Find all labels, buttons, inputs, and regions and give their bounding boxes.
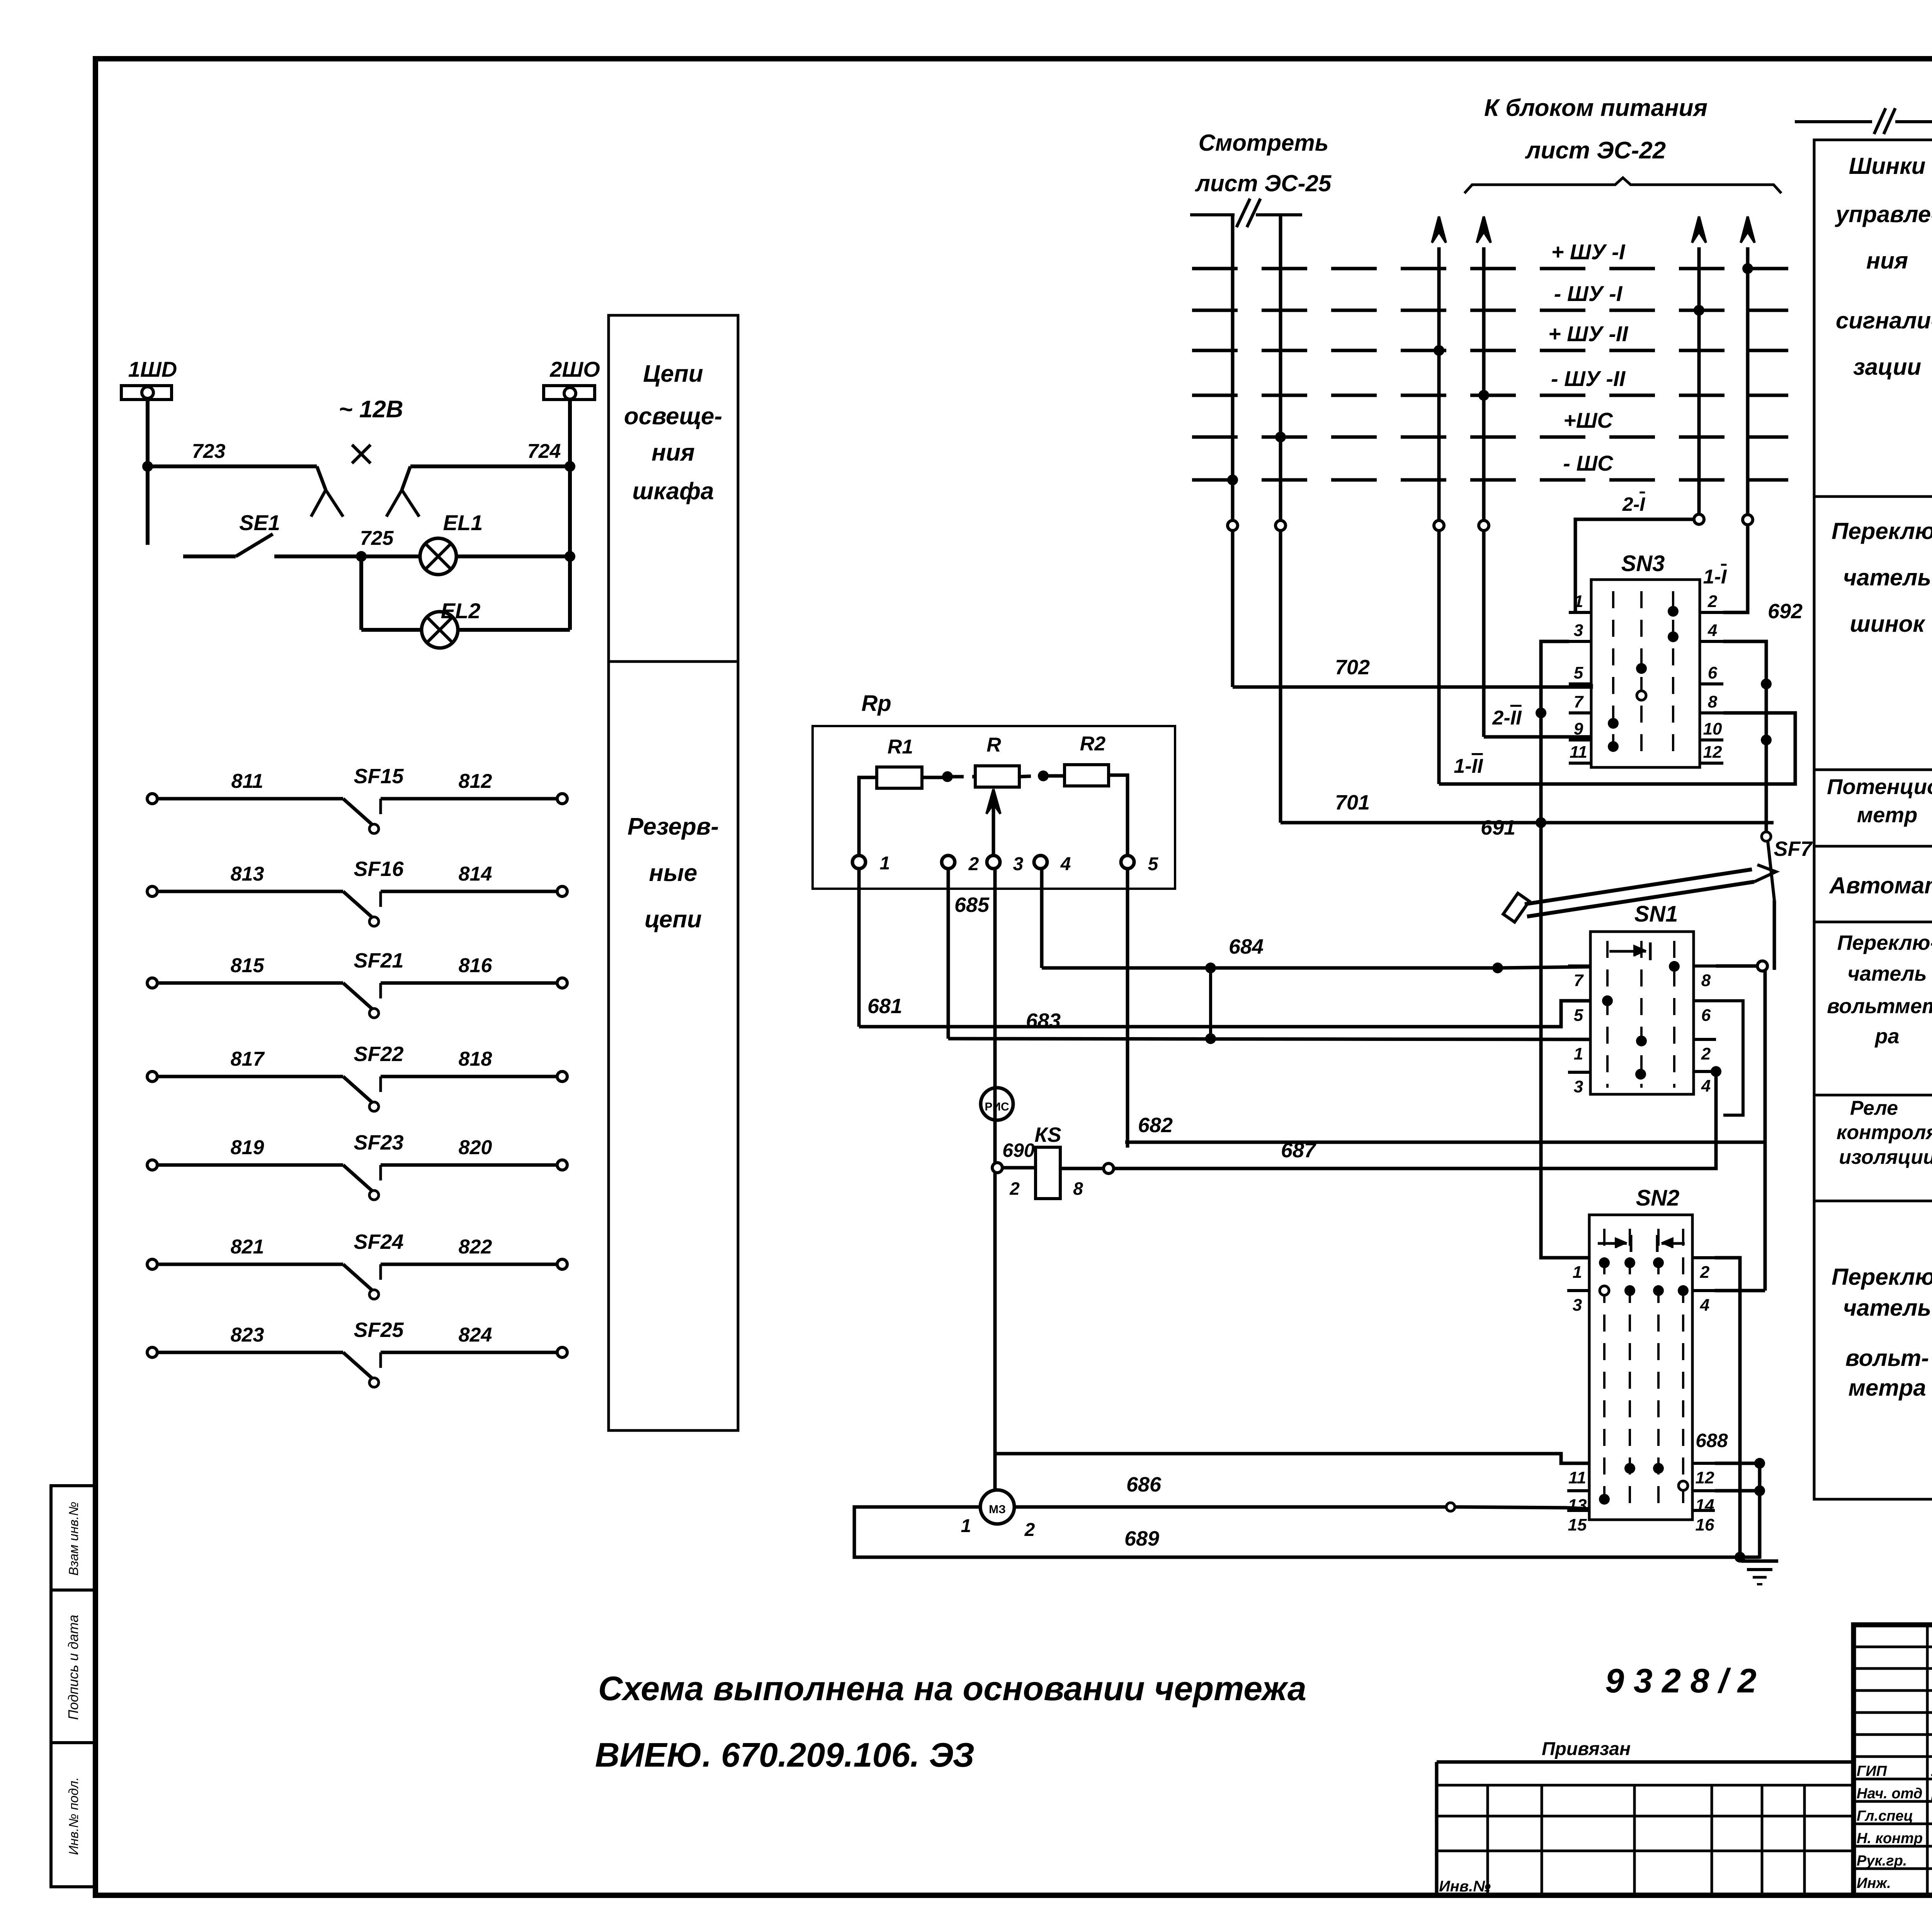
svg-text:2: 2 xyxy=(1701,1044,1711,1063)
svg-text:4: 4 xyxy=(1700,1296,1709,1315)
drawout switch double bar xyxy=(1527,882,1754,917)
svg-text:687: 687 xyxy=(1281,1139,1317,1162)
reserve circuit SF21 wire 815-816 xyxy=(147,978,157,988)
SN1 selector arrow xyxy=(1609,950,1646,953)
wire from terminal 3 wiper down xyxy=(993,869,997,1490)
middle column divider xyxy=(1814,1200,1932,1202)
svg-text:SF24: SF24 xyxy=(354,1230,403,1253)
svg-text:1: 1 xyxy=(1574,1044,1583,1063)
left margin box Podpis i data xyxy=(51,1590,95,1743)
svg-text:управле-: управле- xyxy=(1835,201,1932,227)
svg-text:ния: ния xyxy=(651,439,695,466)
svg-text:701: 701 xyxy=(1335,791,1370,814)
vertical from ES-25 to node 701 xyxy=(1279,215,1282,520)
reserve circuit SF23 wire 819-820 xyxy=(147,1160,157,1170)
svg-text:5: 5 xyxy=(1574,1006,1583,1025)
SN1 pin6 drop wire xyxy=(1716,1001,1743,1115)
cross mark X xyxy=(352,445,371,463)
svg-text:R1: R1 xyxy=(888,736,913,758)
svg-text:3: 3 xyxy=(1574,1077,1583,1096)
svg-text:EL2: EL2 xyxy=(441,599,481,623)
svg-text:метр: метр xyxy=(1857,803,1918,827)
left margin box Inv No podl xyxy=(51,1743,95,1887)
svg-text:814: 814 xyxy=(459,863,492,885)
SN1 contact dots xyxy=(1669,961,1680,972)
svg-text:Автомат: Автомат xyxy=(1828,872,1932,898)
middle label column box xyxy=(1814,140,1932,1499)
svg-text:SF16: SF16 xyxy=(354,857,404,881)
svg-text:684: 684 xyxy=(1229,935,1264,958)
svg-text:вольт-: вольт- xyxy=(1845,1345,1929,1371)
svg-text:цепи: цепи xyxy=(645,906,702,933)
SN1 pin 8 xyxy=(1694,964,1716,968)
svg-text:1-II: 1-II xyxy=(1454,755,1483,777)
switch SN1 box xyxy=(1590,932,1694,1094)
svg-text:Н. контр: Н. контр xyxy=(1857,1830,1923,1847)
svg-text:- ШУ -II: - ШУ -II xyxy=(1551,366,1626,391)
svg-text:Переклю-: Переклю- xyxy=(1837,931,1932,954)
SN2 pin 13 xyxy=(1567,1489,1589,1492)
svg-text:7: 7 xyxy=(1574,692,1584,711)
reserve circuit SF24 wire 821-822 xyxy=(147,1259,157,1269)
svg-text:лист ЭС-25: лист ЭС-25 xyxy=(1195,170,1332,196)
instrument PIS circle xyxy=(981,1088,1013,1120)
svg-text:1: 1 xyxy=(961,1516,971,1536)
svg-text:820: 820 xyxy=(459,1136,492,1159)
reserve circuit SF16 wire 813-814 xyxy=(147,886,157,896)
SN3 dashed contact columns xyxy=(1612,591,1614,757)
svg-text:4: 4 xyxy=(1701,1077,1711,1095)
drawout switch hook xyxy=(1503,893,1529,922)
svg-text:2: 2 xyxy=(1708,592,1718,611)
SN3 pin 3 xyxy=(1569,640,1591,643)
svg-text:Нач. отд: Нач. отд xyxy=(1857,1786,1922,1802)
svg-text:5: 5 xyxy=(1574,663,1583,682)
SN2 contact dots xyxy=(1599,1257,1610,1268)
arrow vertical bus tap 4 xyxy=(1746,247,1750,515)
svg-text:691: 691 xyxy=(1481,816,1515,839)
line with break over ES-25 verticals xyxy=(1190,213,1235,216)
svg-text:690: 690 xyxy=(1002,1139,1035,1161)
vertical from ES-25 to node 702 xyxy=(1231,215,1235,520)
Rp terminal 1 xyxy=(852,855,866,869)
SN1 dashed contact columns xyxy=(1606,941,1609,1088)
Rp terminal 4 xyxy=(1034,855,1047,869)
SN3 pin 10 xyxy=(1700,738,1723,742)
svg-text:10: 10 xyxy=(1703,719,1722,738)
lamp EL2 xyxy=(422,612,458,648)
svg-text:702: 702 xyxy=(1335,656,1370,679)
svg-text:сигнали-: сигнали- xyxy=(1836,308,1932,333)
svg-text:4: 4 xyxy=(1708,621,1717,640)
SN1 pin8 wire to SF7 vertical xyxy=(1716,964,1757,968)
svg-text:3: 3 xyxy=(1574,621,1583,640)
SN3 pin 12 xyxy=(1700,762,1723,765)
resistor R xyxy=(975,766,1019,787)
svg-text:Гл.спец: Гл.спец xyxy=(1857,1808,1913,1824)
title block left grid rows xyxy=(1854,1646,1932,1648)
bus line +ШС xyxy=(1192,435,1788,439)
Rp terminal 3 xyxy=(987,855,1000,869)
SN2 dashed contact columns xyxy=(1603,1229,1605,1511)
svg-text:6: 6 xyxy=(1708,663,1718,682)
ground stem xyxy=(1758,1463,1762,1559)
svg-text:EL1: EL1 xyxy=(443,510,483,535)
SN1 pin 3 xyxy=(1568,1071,1590,1074)
middle column divider xyxy=(1814,769,1932,771)
svg-text:контроля: контроля xyxy=(1837,1121,1932,1144)
svg-text:чатель: чатель xyxy=(1847,962,1927,985)
svg-text:Шинки: Шинки xyxy=(1849,153,1926,179)
SN3 pin 6 xyxy=(1700,682,1723,685)
svg-text:818: 818 xyxy=(459,1048,492,1070)
svg-text:2: 2 xyxy=(1024,1520,1035,1540)
svg-text:Rp: Rp xyxy=(861,691,891,716)
resistor assembly Rp box xyxy=(813,726,1175,889)
svg-text:685: 685 xyxy=(954,893,990,917)
svg-text:КS: КS xyxy=(1034,1123,1061,1146)
riser between 684 and 683 xyxy=(1209,968,1212,1039)
svg-text:8: 8 xyxy=(1701,971,1711,990)
svg-text:Инж.: Инж. xyxy=(1857,1875,1891,1891)
svg-text:2: 2 xyxy=(968,854,979,874)
wire from terminal 1 down xyxy=(857,869,861,1027)
svg-text:681: 681 xyxy=(867,995,902,1018)
SN3 pin 9 xyxy=(1569,738,1591,742)
SN3 pin 4 xyxy=(1700,640,1723,643)
SN3 pin 2 xyxy=(1700,611,1723,614)
reserve circuit SF22 wire 817-818 xyxy=(147,1071,157,1082)
SN2 pin 14 xyxy=(1692,1489,1715,1492)
svg-text:812: 812 xyxy=(459,770,492,793)
left label column divider xyxy=(609,660,738,663)
line with break over middle column xyxy=(1795,120,1872,123)
svg-text:688: 688 xyxy=(1696,1430,1728,1451)
svg-text:682: 682 xyxy=(1138,1114,1173,1137)
svg-text:SN1: SN1 xyxy=(1634,901,1678,927)
svg-text:1: 1 xyxy=(1573,1263,1582,1282)
middle column divider xyxy=(1814,495,1932,498)
svg-text:SN2: SN2 xyxy=(1636,1185,1680,1211)
svg-text:Переклю-: Переклю- xyxy=(1832,1264,1932,1290)
svg-text:823: 823 xyxy=(231,1324,264,1346)
svg-text:чатель: чатель xyxy=(1843,565,1931,590)
middle column divider xyxy=(1814,845,1932,848)
svg-text:811: 811 xyxy=(231,770,264,793)
SN1 pin 5 xyxy=(1568,999,1590,1002)
svg-text:3: 3 xyxy=(1573,1296,1582,1315)
svg-text:723: 723 xyxy=(192,440,226,463)
SN3 pin 11 xyxy=(1569,762,1591,765)
svg-text:813: 813 xyxy=(231,863,264,885)
svg-text:824: 824 xyxy=(459,1324,492,1346)
Rp internal wiring xyxy=(859,777,877,857)
left margin box Vzam inv xyxy=(51,1486,95,1590)
SN2 pin14 wire to ground stem xyxy=(1715,1489,1760,1493)
terminal 2ShO xyxy=(544,386,595,400)
svg-text:Рук.гр.: Рук.гр. xyxy=(1857,1853,1907,1869)
SN3 pin 8 xyxy=(1700,711,1723,714)
svg-text:SF23: SF23 xyxy=(354,1131,403,1154)
arrow vertical bus tap 2 xyxy=(1482,247,1486,520)
svg-text:Потенцио-: Потенцио- xyxy=(1827,774,1932,799)
Rp terminal 5 xyxy=(1121,855,1134,869)
svg-text:ВИЕЮ. 670.209.106. ЭЗ: ВИЕЮ. 670.209.106. ЭЗ xyxy=(595,1736,975,1774)
svg-text:+ ШУ -I: + ШУ -I xyxy=(1551,240,1626,264)
svg-text:12: 12 xyxy=(1703,743,1722,762)
svg-text:Схема выполнена на основан: Схема выполнена на основании чертежа xyxy=(598,1669,1306,1708)
svg-text:изоляции: изоляции xyxy=(1839,1146,1932,1168)
svg-text:чатель: чатель xyxy=(1843,1295,1931,1321)
svg-text:16: 16 xyxy=(1696,1515,1714,1534)
connector fork right xyxy=(402,466,410,490)
vertical from SF7 to SN2 pin4 xyxy=(1764,971,1767,1291)
svg-text:SF7: SF7 xyxy=(1774,837,1813,861)
svg-text:2-I: 2-I xyxy=(1622,493,1645,515)
svg-text:SF15: SF15 xyxy=(354,765,404,788)
svg-text:шкафа: шкафа xyxy=(632,478,714,505)
middle column divider xyxy=(1814,1094,1932,1097)
attachment table xyxy=(1437,1760,1854,1764)
svg-text:К блоком питания: К блоком питания xyxy=(1484,95,1708,121)
SN2 pin 3 xyxy=(1567,1289,1589,1292)
svg-text:Привязан: Привязан xyxy=(1542,1739,1631,1759)
svg-text:Смотреть: Смотреть xyxy=(1199,130,1329,156)
svg-text:11: 11 xyxy=(1570,743,1587,762)
svg-text:+ ШУ -II: + ШУ -II xyxy=(1548,321,1629,346)
svg-text:7: 7 xyxy=(1574,971,1584,990)
svg-text:МЗ: МЗ xyxy=(989,1503,1006,1516)
SN1 pin 4 xyxy=(1694,1070,1716,1073)
svg-text:- ШС: - ШС xyxy=(1563,451,1614,475)
SN2 pin 15 xyxy=(1567,1509,1589,1512)
svg-text:821: 821 xyxy=(231,1236,264,1258)
svg-text:- ШУ -I: - ШУ -I xyxy=(1554,281,1623,306)
svg-text:683: 683 xyxy=(1026,1009,1061,1032)
svg-text:815: 815 xyxy=(231,954,265,977)
svg-text:725: 725 xyxy=(360,527,394,549)
switch SN2 box xyxy=(1589,1215,1692,1520)
SN1 pin 7 xyxy=(1568,964,1590,968)
svg-text:816: 816 xyxy=(459,954,493,977)
reserve circuit SF25 wire 823-824 xyxy=(147,1347,157,1357)
SN1 pin 2 xyxy=(1694,1038,1716,1041)
SN3 pin 1 xyxy=(1569,611,1591,614)
bus line - ШУ -I xyxy=(1192,309,1788,312)
svg-text:2-II: 2-II xyxy=(1492,707,1522,729)
svg-text:SF21: SF21 xyxy=(354,949,403,972)
wire 2ShO down to lamps xyxy=(568,400,572,630)
Rp terminal 2 xyxy=(942,855,955,869)
SN2 pin 4 xyxy=(1692,1289,1715,1292)
svg-text:Подпись и дата: Подпись и дата xyxy=(65,1615,81,1720)
SN2 selector arrows xyxy=(1598,1242,1627,1245)
bus line + ШУ -II xyxy=(1192,349,1788,352)
svg-text:819: 819 xyxy=(231,1136,264,1159)
wire 691 vertical from SN3 pins 3,7 xyxy=(1541,641,1589,1258)
svg-text:1: 1 xyxy=(880,853,890,874)
svg-text:Резерв-: Резерв- xyxy=(628,813,719,840)
switch SN3 box xyxy=(1591,580,1700,767)
svg-text:R: R xyxy=(986,734,1001,756)
svg-text:4: 4 xyxy=(1060,854,1071,874)
svg-text:15: 15 xyxy=(1568,1515,1587,1534)
svg-text:Инв.№: Инв.№ xyxy=(1439,1878,1491,1895)
svg-text:2ШО: 2ШО xyxy=(549,357,600,381)
svg-text:1ШD: 1ШD xyxy=(128,357,177,381)
svg-text:метра: метра xyxy=(1848,1375,1926,1401)
SN2 pin 1 xyxy=(1567,1256,1589,1259)
svg-text:ра: ра xyxy=(1874,1025,1899,1048)
svg-text:~ 12В: ~ 12В xyxy=(338,396,403,423)
svg-text:686: 686 xyxy=(1126,1473,1162,1496)
svg-text:689: 689 xyxy=(1124,1527,1159,1550)
SN2 pin2 wire down to 689 xyxy=(1715,1258,1740,1557)
wire from 1ShD down xyxy=(146,400,150,545)
svg-text:РИС: РИС xyxy=(985,1100,1009,1113)
long wire from wiper to SN2 pin11 xyxy=(995,1454,1589,1463)
svg-text:817: 817 xyxy=(231,1048,265,1070)
SN1 pin 6 xyxy=(1694,999,1716,1002)
svg-text:зации: зации xyxy=(1853,354,1921,380)
reserve circuit SF15 wire 811-812 xyxy=(147,794,157,804)
bus line - ШС xyxy=(1192,478,1788,482)
svg-text:Переклю-: Переклю- xyxy=(1832,518,1932,544)
svg-text:5: 5 xyxy=(1148,854,1159,874)
middle column divider xyxy=(1814,921,1932,923)
ground xyxy=(1741,1560,1778,1563)
svg-text:SF25: SF25 xyxy=(354,1318,404,1342)
svg-text:8: 8 xyxy=(1708,692,1718,711)
left label column box xyxy=(609,315,738,1430)
wire from terminal 5 down to 682 xyxy=(1126,869,1129,1148)
SN2 pin 2 xyxy=(1692,1256,1715,1259)
SN2 pin 12 xyxy=(1692,1462,1715,1465)
SN1 pin 1 xyxy=(1568,1038,1590,1041)
svg-text:2: 2 xyxy=(1700,1263,1710,1282)
svg-text:724: 724 xyxy=(527,440,561,463)
SN2 pin4 wire from SF7 vertical xyxy=(1715,1289,1765,1293)
svg-text:ные: ные xyxy=(649,860,697,886)
bus line - ШУ -II xyxy=(1192,394,1788,397)
svg-text:ГИП: ГИП xyxy=(1857,1763,1887,1779)
arrow vertical bus tap 1 xyxy=(1437,247,1441,520)
svg-text:3: 3 xyxy=(1013,854,1024,874)
resistor R2 xyxy=(1065,765,1109,786)
svg-text:освеще-: освеще- xyxy=(624,403,722,430)
svg-text:+ШС: +ШС xyxy=(1563,408,1614,432)
svg-text:Реле: Реле xyxy=(1850,1097,1898,1119)
svg-text:Инв.№ подл.: Инв.№ подл. xyxy=(66,1777,81,1855)
svg-text:11: 11 xyxy=(1568,1468,1586,1487)
resistor R1 xyxy=(877,767,922,788)
svg-text:9 3 2 8 / 2: 9 3 2 8 / 2 xyxy=(1605,1662,1756,1700)
svg-text:Взам инв.№: Взам инв.№ xyxy=(66,1502,81,1575)
svg-text:шинок: шинок xyxy=(1850,611,1925,637)
title block outer box xyxy=(1854,1625,1932,1895)
Rp wiper arrow xyxy=(992,793,995,857)
svg-text:SN3: SN3 xyxy=(1621,551,1665,576)
SN2 pin 16 xyxy=(1692,1509,1715,1512)
svg-text:1-I: 1-I xyxy=(1703,566,1727,588)
brace under note xyxy=(1464,178,1781,193)
svg-text:8: 8 xyxy=(1073,1179,1083,1199)
svg-text:Цепи: Цепи xyxy=(643,361,703,387)
connector fork left xyxy=(317,466,326,490)
svg-text:6: 6 xyxy=(1701,1006,1711,1025)
svg-text:лист ЭС-22: лист ЭС-22 xyxy=(1525,137,1666,164)
arrow vertical bus tap 3 xyxy=(1697,247,1701,514)
SN3 pin 5 xyxy=(1569,682,1591,685)
svg-text:2: 2 xyxy=(1009,1179,1020,1199)
terminal 1ShD xyxy=(121,386,172,400)
svg-text:ния: ния xyxy=(1866,248,1908,274)
svg-text:12: 12 xyxy=(1696,1468,1714,1487)
svg-text:SF22: SF22 xyxy=(354,1043,403,1066)
bus line + ШУ -I xyxy=(1192,267,1788,270)
wire from terminal 4 to 684 xyxy=(1040,869,1044,968)
svg-text:822: 822 xyxy=(459,1236,492,1258)
svg-text:SE1: SE1 xyxy=(239,510,280,535)
title block left grid verticals xyxy=(1926,1625,1929,1895)
svg-text:R2: R2 xyxy=(1080,733,1106,755)
svg-text:вольтмет-: вольтмет- xyxy=(1827,995,1932,1018)
SN2 pin 11 xyxy=(1567,1462,1589,1465)
SN3 pin 7 xyxy=(1569,711,1591,714)
instrument MZ circle xyxy=(980,1490,1014,1524)
svg-text:692: 692 xyxy=(1768,600,1803,623)
SN3 contact dots xyxy=(1668,606,1679,617)
